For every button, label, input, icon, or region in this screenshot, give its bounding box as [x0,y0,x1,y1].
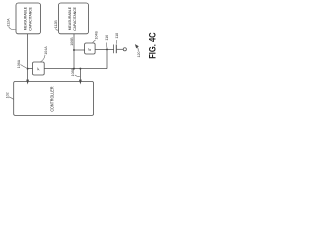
wire from 112A down to controller [27,34,29,81]
terminal circle 120 [123,48,126,51]
svg-text:112B: 112B [54,20,58,29]
svg-text:IA: IA [37,67,40,71]
svg-text:CAPACITANCE: CAPACITANCE [73,6,77,30]
svg-text:102: 102 [5,92,9,98]
capacitor 118 right plate [115,45,117,54]
wire 104B output to junction [95,48,114,50]
svg-text:MEASURABLE: MEASURABLE [68,6,72,30]
leader line label 104B [93,40,96,43]
svg-text:104B: 104B [95,31,99,40]
junction dot at riser [106,48,108,50]
measurable capacitance block 112B [59,3,89,34]
svg-text:106B: 106B [70,37,74,46]
leader line label 108B [75,75,80,76]
capacitor 118 left plate [113,45,115,54]
leader line label 118 [115,40,118,44]
wire from 112B down to shared wire [73,34,75,69]
leader line label 116 [105,43,108,49]
svg-text:112A: 112A [6,18,10,27]
svg-text:104A: 104A [44,46,48,55]
arrowhead into controller left [26,80,29,85]
tap wire into controller [79,69,81,81]
junction node A dot [27,68,29,70]
svg-text:108B: 108B [71,67,75,76]
svg-text:CONTROLLER: CONTROLLER [49,87,55,112]
svg-text:FIG. 4C: FIG. 4C [148,32,158,59]
arrowhead into controller right [79,80,82,85]
wire node A to box 104A [28,68,33,70]
wire capacitor to terminal [116,48,123,50]
leader line label 112A [9,27,16,30]
wire 104A output to riser [44,68,107,70]
wire node B to box 104B [74,49,85,51]
controller block 102 [14,82,94,116]
leader line label 112B [56,29,59,31]
leader line label 102 [9,97,14,99]
current source box 104B [85,43,96,54]
leader line label 106A [21,65,27,69]
svg-text:MEASURABLE: MEASURABLE [24,6,28,30]
svg-text:IB: IB [88,48,91,52]
svg-text:106A: 106A [17,59,21,68]
measurable capacitance block 112A [16,3,41,34]
arrowhead pointing to terminal [135,44,139,48]
svg-text:118: 118 [115,33,119,39]
leader line label 104A [41,55,46,62]
svg-text:116: 116 [105,35,109,41]
svg-text:120: 120 [137,52,141,58]
current source box 104A [33,62,45,75]
riser wire [106,49,108,68]
leader line label 120 [137,47,138,51]
junction dot at tap [79,68,81,70]
junction node B dot [73,49,75,51]
junction dot on shared wire [73,68,75,70]
svg-text:CAPACITANCE: CAPACITANCE [29,6,33,30]
